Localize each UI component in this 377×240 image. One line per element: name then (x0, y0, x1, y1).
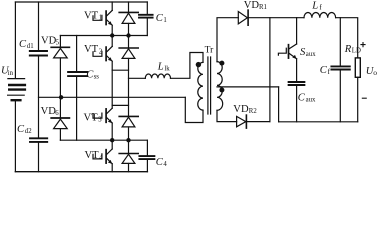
wire Saux collector lead (296, 18, 298, 44)
svg-text:L: L (157, 61, 164, 72)
diode D1 (119, 12, 138, 23)
wire midpoint line (39, 96, 186, 98)
wire VD6 upper lead (59, 98, 61, 117)
svg-text:3: 3 (98, 117, 102, 124)
transistor VT1 (93, 2, 112, 36)
wire center tap riser (278, 87, 280, 122)
svg-text:L: L (311, 0, 318, 11)
svg-text:lk: lk (164, 65, 170, 72)
svg-text:ss: ss (94, 73, 100, 80)
wire RLD lower lead (357, 77, 359, 122)
wire VD5 lower lead (59, 58, 61, 97)
wire secondary bottom lead (217, 110, 237, 121)
wire L1k lead-in (129, 77, 146, 79)
diode VD6 (51, 118, 69, 129)
svg-text:R1: R1 (259, 4, 267, 11)
diode D3 (119, 116, 138, 127)
wire Css upper lead (76, 36, 78, 71)
wire Cf lower lead (339, 71, 341, 122)
wire VD6 lower lead (59, 129, 61, 141)
label minus (362, 97, 367, 99)
svg-text:f: f (319, 3, 322, 12)
wire Saux emitter to Caux (296, 59, 298, 81)
wire diode column upper lead (128, 2, 130, 12)
wire leg VT2 emitter down to VT3 (111, 61, 113, 108)
wire primary return riser (185, 97, 203, 122)
wire node A line (60, 35, 147, 37)
node A dot right (126, 33, 130, 37)
wire VD5 upper lead (59, 36, 61, 47)
svg-text:f: f (328, 67, 331, 76)
svg-text:2: 2 (99, 48, 103, 55)
svg-text:VT: VT (85, 150, 100, 161)
svg-text:VT: VT (84, 10, 99, 21)
wire node A to D2 (128, 36, 130, 48)
wire node C to D4 (128, 140, 130, 153)
svg-text:C: C (298, 93, 306, 104)
wire left rail lower (14, 100, 16, 172)
svg-text:5: 5 (56, 40, 60, 47)
wire L1k to primary top (171, 53, 204, 79)
svg-text:4: 4 (163, 161, 167, 168)
svg-text:1: 1 (163, 17, 166, 24)
svg-text:6: 6 (55, 110, 59, 117)
wire D4 anode to bottom rail (128, 164, 130, 172)
wire rectifier tie vertical (269, 18, 271, 122)
node midpoint junction (59, 95, 63, 99)
diode D2 (119, 48, 138, 58)
transformer Tr primary winding (198, 62, 203, 110)
wire VDR2 cathode to tie (246, 121, 270, 123)
svg-text:d1: d1 (27, 43, 34, 50)
capacitor Css (68, 72, 87, 76)
svg-text:VD: VD (244, 0, 260, 11)
capacitor Cd2 (30, 138, 47, 142)
battery Uin (8, 79, 25, 101)
diode VDR2 (237, 115, 247, 128)
capacitor C1 (139, 15, 153, 18)
wire top rail (15, 1, 147, 3)
node C dot left (110, 138, 114, 142)
wire Caux lower lead (296, 86, 298, 122)
svg-text:VD: VD (41, 35, 57, 46)
wire C1 upper lead (146, 2, 148, 14)
diode D4 (119, 154, 138, 164)
transformer core (208, 57, 211, 114)
capacitor C4 (139, 156, 154, 159)
svg-text:VD: VD (233, 104, 249, 115)
wire secondary top lead (217, 18, 238, 62)
wire node C line (60, 139, 147, 141)
wire center tap (217, 86, 279, 88)
wire bottom rail (15, 171, 147, 173)
transistor VT2 (93, 36, 112, 62)
svg-text:C: C (19, 39, 27, 50)
svg-text:R: R (344, 44, 352, 55)
transistor VT4 (93, 140, 112, 172)
capacitor Cf (331, 66, 349, 69)
svg-text:R2: R2 (249, 108, 258, 115)
svg-text:VD: VD (41, 106, 57, 117)
svg-text:1: 1 (99, 15, 102, 22)
svg-text:4: 4 (99, 154, 103, 161)
wire D1 to node A (128, 24, 130, 36)
wire Cd column upper (38, 2, 40, 50)
node A dot left (110, 33, 114, 37)
wire D3 to node C (128, 127, 130, 140)
diode VD5 (51, 47, 69, 58)
wire Cd column lower (38, 143, 40, 172)
label plus (360, 42, 365, 47)
wire left rail upper (14, 2, 16, 78)
svg-text:Tr: Tr (205, 46, 214, 56)
wire rectifier output top (248, 17, 304, 19)
wire node B tie (112, 69, 128, 71)
wire output return rail (279, 121, 358, 123)
wire C4 lower lead (146, 160, 148, 172)
transistor Saux (278, 44, 296, 59)
resistor RLD (355, 58, 360, 77)
wire Cd column middle (38, 57, 40, 138)
node C dot right (126, 138, 130, 142)
capacitor Cd1 (30, 51, 47, 56)
secondary polarity dot mid (219, 88, 224, 93)
inductor Lf (304, 12, 336, 17)
wire Lf to load corner (336, 18, 358, 58)
svg-text:C: C (17, 124, 25, 135)
svg-text:VT: VT (84, 44, 99, 55)
secondary polarity dot top (219, 61, 224, 66)
diode VDR1 (238, 10, 248, 25)
svg-text:in: in (8, 69, 14, 77)
primary polarity dot (196, 62, 201, 67)
svg-text:LD: LD (352, 48, 361, 55)
svg-text:aux: aux (306, 97, 316, 104)
svg-text:d2: d2 (25, 128, 32, 135)
wire Cf upper lead (339, 18, 341, 66)
transistor VT3 (93, 108, 112, 140)
svg-text:aux: aux (306, 51, 316, 58)
wire C4 upper lead (146, 140, 148, 155)
svg-text:VT: VT (84, 112, 99, 123)
wire D2 anode down through L1k tap to D3 (128, 59, 130, 116)
capacitor Caux (289, 82, 305, 85)
transformer secondary winding (217, 62, 223, 111)
inductor L1k (145, 74, 170, 78)
wire C1 lower lead (146, 19, 148, 36)
svg-text:o: o (373, 68, 377, 77)
wire VT3 tie (112, 104, 128, 106)
wire Css lower lead (76, 77, 78, 140)
